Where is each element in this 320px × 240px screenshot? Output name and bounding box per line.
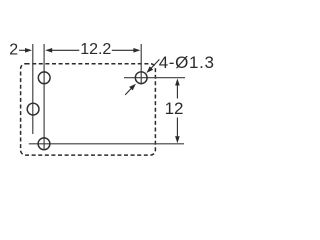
dimension 2 arrow: [19, 48, 32, 53]
svg-text:4-Ø1.3: 4-Ø1.3: [159, 53, 215, 72]
horizontal extension line through hole C: [29, 143, 184, 145]
horizontal extension line through hole D: [124, 77, 185, 79]
dimension 12 bottom arrow and line: [175, 118, 180, 144]
dimension 12.2 right arrow and line: [112, 48, 141, 53]
PCB outline (dashed rounded rectangle): [21, 64, 156, 155]
center line L2 through holes A and C: [43, 44, 45, 150]
center line through hole D: [140, 44, 142, 85]
hole D (top right): [135, 72, 147, 84]
hole A (top left): [38, 72, 50, 84]
center line L1 through hole B: [32, 44, 34, 134]
svg-text:2: 2: [9, 42, 18, 59]
leader arrow to hole D (lower): [125, 84, 136, 95]
svg-text:12: 12: [165, 99, 184, 118]
hole B (middle left): [27, 103, 39, 115]
hole C (bottom left): [38, 138, 50, 150]
dimension 12.2 left arrow and line: [45, 48, 79, 53]
dimension 12 top arrow and line: [175, 79, 180, 99]
leader arrow to hole D (upper): [147, 59, 160, 73]
svg-text:12.2: 12.2: [80, 41, 111, 58]
